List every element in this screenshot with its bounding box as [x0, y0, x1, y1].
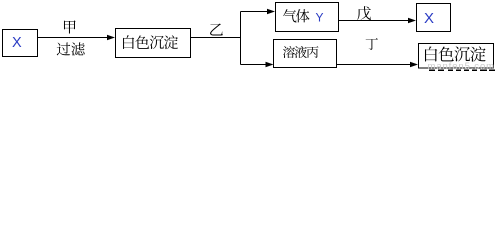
svg-text:Y: Y [316, 10, 324, 24]
label 过滤 [57, 42, 85, 55]
watermark manfen5.com [428, 61, 495, 72]
box 白色沉淀 1 [116, 29, 191, 58]
arrow 丁 [337, 62, 419, 68]
label 丁 [366, 38, 378, 50]
box 气体Y [276, 3, 339, 32]
wire trunk vertical [240, 12, 242, 65]
box 白色沉淀 2 [419, 44, 494, 69]
arrow to 气体Y [241, 9, 276, 15]
arrow 甲/过滤 [38, 35, 116, 41]
cropped text row at bottom edge [429, 70, 495, 72]
svg-text:X: X [12, 35, 22, 51]
label 戊 [357, 6, 371, 20]
arrow to 溶液丙 [241, 62, 274, 68]
wire 乙 [191, 37, 242, 39]
svg-text:X: X [424, 10, 434, 27]
arrow 戊 [339, 18, 417, 24]
box X right [417, 4, 451, 32]
box 溶液丙 [274, 40, 337, 68]
box X left [3, 30, 38, 57]
label 甲 [64, 20, 76, 33]
label 乙 [210, 23, 223, 35]
svg-text:manfen5.com: manfen5.com [428, 61, 495, 71]
